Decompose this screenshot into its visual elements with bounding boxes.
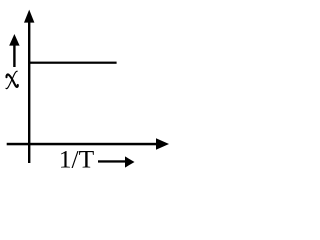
svg-text:1/T: 1/T [59, 145, 95, 174]
